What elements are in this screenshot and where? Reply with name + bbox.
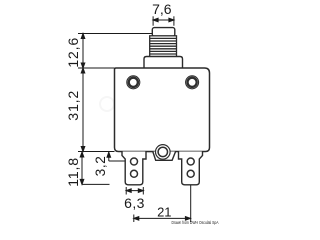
rivet hole right xyxy=(186,76,199,89)
body xyxy=(115,68,210,152)
svg-text:6,3: 6,3 xyxy=(124,195,145,211)
watermark logo xyxy=(100,90,188,152)
push button xyxy=(152,28,175,37)
svg-text:11,8: 11,8 xyxy=(66,157,82,187)
terminal left xyxy=(122,152,146,185)
mounting flange xyxy=(144,57,183,69)
bottom bump xyxy=(153,152,176,161)
dimension 6,3 xyxy=(126,187,143,195)
threaded neck xyxy=(150,36,177,57)
svg-text:31,2: 31,2 xyxy=(66,90,82,121)
dimension 11,8 xyxy=(80,152,109,184)
terminal right holes xyxy=(187,158,194,177)
terminal right xyxy=(179,152,203,185)
terminal left holes xyxy=(131,158,138,177)
bump eyelet xyxy=(156,145,171,160)
dimension 7,6 xyxy=(153,16,174,25)
svg-text:Drawn from DWH Osculati SpA: Drawn from DWH Osculati SpA xyxy=(172,220,219,225)
dimension 12,6 xyxy=(78,34,152,69)
svg-text:3,2: 3,2 xyxy=(93,156,108,177)
svg-text:12,6: 12,6 xyxy=(66,37,82,68)
rivet hole left xyxy=(127,76,140,89)
svg-text:7,6: 7,6 xyxy=(152,1,172,17)
svg-text:21: 21 xyxy=(157,204,171,219)
dimension 31,2 xyxy=(78,68,115,152)
dimension 21 xyxy=(134,185,191,222)
dimension 3,2 xyxy=(107,152,125,161)
